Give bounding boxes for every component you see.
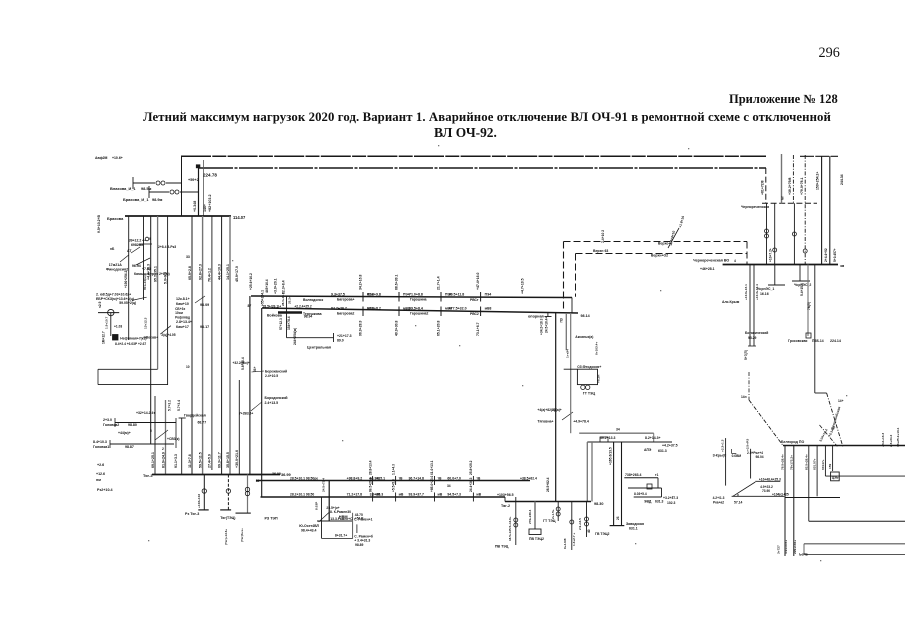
svg-text:73.1+6.7: 73.1+6.7 <box>476 322 480 336</box>
svg-text:631.57+: 631.57+ <box>813 458 817 470</box>
svg-text:Брахова: Брахова <box>107 216 124 221</box>
svg-text:40: 40 <box>587 529 591 533</box>
svg-text:36.7+14.8: 36.7+14.8 <box>409 476 425 480</box>
svg-text:34.2+16.8: 34.2+16.8 <box>359 274 363 290</box>
svg-text:9.5+10.2+В: 9.5+10.2+В <box>97 214 101 233</box>
svg-text:ч2.9: ч2.9 <box>98 301 102 308</box>
svg-text:8.03Р: 8.03Р <box>315 502 319 510</box>
svg-text:26: 26 <box>616 516 620 520</box>
svg-text:2.4+13.5: 2.4+13.5 <box>265 401 279 405</box>
svg-text:мВ8: мВ8 <box>485 307 492 311</box>
svg-text:+6.2Н: +6.2Н <box>597 374 601 383</box>
svg-text:14н: 14н <box>741 395 747 399</box>
svg-text:24.5+72.4: 24.5+72.4 <box>322 478 326 492</box>
svg-text:94.5+7.3: 94.5+7.3 <box>447 493 461 497</box>
svg-text:+2.3+1.3: +2.3+1.3 <box>721 439 725 452</box>
svg-text:Головка2: Головка2 <box>103 423 119 427</box>
svg-text:102.3: 102.3 <box>667 501 676 505</box>
svg-text:57+12.3: 57+12.3 <box>279 318 283 330</box>
svg-text:5: 5 <box>150 429 152 433</box>
svg-text:+5.5+5.8: +5.5+5.8 <box>391 479 395 492</box>
svg-text:Чернореченская: Чернореченская <box>741 205 769 209</box>
svg-text:+0.348: +0.348 <box>193 201 197 212</box>
svg-text:Чернореченская ВО: Чернореченская ВО <box>693 259 729 263</box>
svg-text:Бережанский: Бережанский <box>265 370 287 374</box>
svg-text:9+4.9/8: 9+4.9/8 <box>563 538 567 549</box>
svg-text:229+134+: 229+134+ <box>793 540 797 554</box>
svg-text:ЬеПв: ЬеПв <box>799 553 807 557</box>
svg-text:3+727: 3+727 <box>777 545 781 554</box>
svg-text:10: 10 <box>186 365 190 369</box>
svg-text:ЧсрнЭС_1: ЧсрнЭС_1 <box>757 287 774 291</box>
svg-text:47.3+9.8: 47.3+9.8 <box>367 292 381 296</box>
svg-text:+1.6+10: +1.6+10 <box>678 215 685 228</box>
svg-text:пВосав+: пВосав+ <box>144 335 159 339</box>
svg-text:35.8+15.5: 35.8+15.5 <box>226 452 230 468</box>
svg-text:39+12.2 4+: 39+12.2 4+ <box>129 239 146 243</box>
svg-text:20.5+11.8: 20.5+11.8 <box>449 292 465 296</box>
svg-text:Волгодонск: Волгодонск <box>303 298 323 302</box>
svg-text:+103+56.5: +103+56.5 <box>497 493 514 497</box>
svg-text:+81+72/8: +81+72/8 <box>761 180 765 195</box>
svg-text:84.7+26.7: 84.7+26.7 <box>331 307 347 311</box>
svg-text:+2.6: +2.6 <box>97 463 104 467</box>
svg-text:8.03+5.4: 8.03+5.4 <box>634 492 647 496</box>
svg-text:34: 34 <box>616 428 620 432</box>
svg-text:631.1: 631.1 <box>629 527 638 531</box>
svg-text:+4.2+37.5: +4.2+37.5 <box>662 444 678 448</box>
svg-text:Кам+17: Кам+17 <box>176 325 189 329</box>
svg-text:7+2В3.5+: 7+2В3.5+ <box>239 412 253 416</box>
svg-text:631.3: 631.3 <box>655 500 664 504</box>
svg-text:33: 33 <box>186 255 190 259</box>
svg-text:34: 34 <box>447 484 451 488</box>
svg-text:65.1+20.8: 65.1+20.8 <box>437 320 441 336</box>
svg-text:71.0+8.8: 71.0+8.8 <box>409 292 423 296</box>
svg-text:1+тХ4: 1+тХ4 <box>566 349 570 358</box>
svg-text:279+236.4: 279+236.4 <box>528 509 532 524</box>
svg-text:зм: зм <box>840 264 845 268</box>
svg-text:28.8+13.4: 28.8+13.4 <box>368 460 372 475</box>
svg-text:73.90: 73.90 <box>762 489 770 493</box>
svg-text:8+31.7+: 8+31.7+ <box>335 534 347 538</box>
svg-text:12.0+8.2: 12.0+8.2 <box>367 307 381 311</box>
svg-text:5+7(Л): 5+7(Л) <box>744 350 748 360</box>
svg-text:60.0+7.0: 60.0+7.0 <box>447 476 461 480</box>
svg-text:28.0+25.6: 28.0+25.6 <box>281 292 285 306</box>
svg-text:НВМ: НВМ <box>339 514 348 519</box>
svg-text:мВ: мВ <box>399 493 404 497</box>
svg-text:78+172.2+: 78+172.2+ <box>789 455 793 470</box>
svg-text:2(ц)+4.05: 2(ц)+4.05 <box>161 333 175 337</box>
svg-text:+38.5+82.4: +38.5+82.4 <box>520 476 537 480</box>
svg-text:24.4+30.3: 24.4+30.3 <box>469 477 473 492</box>
svg-text:159+254.2+: 159+254.2+ <box>816 172 820 190</box>
svg-text:Авф2М: Авф2М <box>95 156 108 160</box>
svg-text:ПВ ТЭЦ2: ПВ ТЭЦ2 <box>529 537 544 541</box>
svg-text:нБ: нБ <box>110 247 115 251</box>
svg-text:+СВ3(к): +СВ3(к) <box>167 437 180 441</box>
svg-text:11.3+7.6: 11.3+7.6 <box>188 454 192 468</box>
svg-text:8.4+10.3: 8.4+10.3 <box>93 440 107 444</box>
svg-text:Ботанический: Ботанический <box>745 331 768 335</box>
svg-text:25.2+: 25.2+ <box>287 296 291 304</box>
svg-text:92.8+27.3: 92.8+27.3 <box>198 264 202 280</box>
svg-text:Брахова_И_1: Брахова_И_1 <box>123 197 149 202</box>
svg-text:4.2+/1.3: 4.2+/1.3 <box>713 496 725 500</box>
svg-text:Сб.Феодосия+: Сб.Феодосия+ <box>577 365 601 369</box>
svg-text:+7.03: +7.03 <box>142 267 151 271</box>
svg-text:Ю1+10(м): Ю1+10(м) <box>143 275 147 290</box>
svg-text:27.4+5.9: 27.4+5.9 <box>208 454 212 468</box>
svg-text:Заводская: Заводская <box>626 522 644 526</box>
svg-text:78(Л): 78(Л) <box>807 302 811 310</box>
svg-text:ПВ ТЭЦ: ПВ ТЭЦ <box>495 545 509 549</box>
svg-text:89.0: 89.0 <box>337 339 344 343</box>
svg-text:ЦЗБ: ЦЗБ <box>832 475 839 479</box>
svg-text:93.9+37.7: 93.9+37.7 <box>409 493 425 497</box>
svg-text:28.5+10.1 98.50ре: 28.5+10.1 98.50ре <box>290 477 318 481</box>
svg-text:49.9+30.8: 49.9+30.8 <box>395 320 399 336</box>
svg-text:+10.9+16.1: +10.9+16.1 <box>744 284 748 300</box>
svg-text:28.5+(26.1)+: 28.5+(26.1)+ <box>263 305 282 309</box>
svg-text:18.5+135.5+13.6+: 18.5+135.5+13.6+ <box>508 516 512 541</box>
svg-text:+34.2+10.3: +34.2+10.3 <box>540 318 544 335</box>
svg-text:З-Кры(С: З-Кры(С <box>713 454 727 458</box>
svg-text:+4.7+19.5: +4.7+19.5 <box>520 278 524 294</box>
svg-text:24.5+10.4+: 24.5+10.4+ <box>545 317 549 333</box>
svg-text:Алс.Крым: Алс.Крым <box>722 300 740 304</box>
svg-text:+55+254.1: +55+254.1 <box>261 290 265 306</box>
svg-text:+196+254.2: +196+254.2 <box>124 271 128 288</box>
svg-text:57.14: 57.14 <box>734 501 743 505</box>
svg-text:+46+28.1: +46+28.1 <box>700 267 715 271</box>
svg-text:Аксинья(а): Аксинья(а) <box>575 335 593 339</box>
svg-text:25.8+29.2: 25.8+29.2 <box>469 460 473 475</box>
svg-text:9.3+37.5: 9.3+37.5 <box>331 292 345 296</box>
svg-text:98.9м: 98.9м <box>152 197 163 202</box>
svg-text:Белгород ПО: Белгород ПО <box>781 440 804 444</box>
svg-text:+3.2+37.3: +3.2+37.3 <box>663 496 678 500</box>
svg-text:Гарошина2: Гарошина2 <box>410 312 429 316</box>
svg-text:8.4+2.4 +6.03Р +2.67: 8.4+2.4 +6.03Р +2.67 <box>115 342 146 346</box>
svg-text:3.9+36.3: 3.9+36.3 <box>370 493 384 497</box>
svg-text:2.6+34.2: 2.6+34.2 <box>889 434 893 447</box>
svg-text:154+78.4: 154+78.4 <box>287 316 291 330</box>
svg-text:87: 87 <box>248 304 252 308</box>
svg-text:Багерова+: Багерова+ <box>337 298 354 302</box>
svg-text:(Тяг)+13.6+: (Тяг)+13.6+ <box>224 529 228 545</box>
svg-text:РВС2: РВС2 <box>470 312 479 316</box>
svg-text:+21+17.3: +21+17.3 <box>337 334 352 338</box>
svg-text:мВ: мВ <box>438 493 443 497</box>
svg-text:76.4+1.2: 76.4+1.2 <box>208 268 212 282</box>
svg-text:98.30: 98.30 <box>594 502 603 506</box>
svg-text:16.3+15.1: 16.3+15.1 <box>370 476 386 480</box>
svg-text:+85.6+23.6: +85.6+23.6 <box>430 475 434 492</box>
svg-text:+98.8+9.2: +98.8+9.2 <box>347 476 363 480</box>
svg-text:98.14: 98.14 <box>581 314 591 318</box>
svg-text:14.1+25.1: 14.1+25.1 <box>226 264 230 280</box>
svg-text:Рка+а2: Рка+а2 <box>713 500 724 504</box>
svg-text:+2.5+Р.5: +2.5+Р.5 <box>746 439 750 451</box>
svg-text:4: 4 <box>734 259 736 263</box>
svg-text:+12.6: +12.6 <box>96 472 105 476</box>
svg-text:59.5+11.5: 59.5+11.5 <box>198 452 202 468</box>
svg-text:ПЗ: ПЗ <box>560 318 564 322</box>
svg-text:68.77: 68.77 <box>198 421 207 425</box>
svg-text:опорная: опорная <box>528 315 544 319</box>
svg-text:+104(с)+25: +104(с)+25 <box>772 492 789 496</box>
svg-text:244+254(м): 244+254(м) <box>293 328 297 345</box>
svg-text:98.09: 98.09 <box>200 303 209 307</box>
svg-text:х: х <box>737 493 739 497</box>
svg-text:98.87: 98.87 <box>125 445 134 449</box>
svg-text:+39.2+79/8: +39.2+79/8 <box>788 177 792 195</box>
svg-text:244.34: 244.34 <box>840 174 844 185</box>
svg-text:Рофлявд: Рофлявд <box>175 316 190 320</box>
svg-text:98.4+43.4: 98.4+43.4 <box>301 529 317 533</box>
svg-text:224.78: 224.78 <box>203 173 217 178</box>
svg-text:69.1+25.1: 69.1+25.1 <box>151 452 155 468</box>
svg-text:нм: нм <box>96 478 101 482</box>
svg-text:РЗ ТЭП: РЗ ТЭП <box>265 516 279 520</box>
svg-text:ГТ ТЭЦ: ГТ ТЭЦ <box>583 391 596 395</box>
svg-text:5+0.457+: 5+0.457+ <box>833 248 837 262</box>
svg-text:мВ: мВ <box>476 493 481 497</box>
svg-text:98.29: 98.29 <box>748 336 757 340</box>
svg-text:21.7+1.4: 21.7+1.4 <box>437 276 441 290</box>
svg-text:22.3+8.4: 22.3+8.4 <box>282 280 286 294</box>
svg-text:Грэсовская: Грэсовская <box>788 339 807 343</box>
svg-text:1.1+4.3: 1.1+4.3 <box>391 464 395 475</box>
svg-text:9: 9 <box>149 237 151 241</box>
svg-text:ГВ ТЭЦ2: ГВ ТЭЦ2 <box>595 532 609 536</box>
svg-text:13+25.2+10.4: 13+25.2+10.4 <box>896 427 900 447</box>
svg-text:тВ: тВ <box>476 476 481 480</box>
svg-text:28.2+10.1 98.50: 28.2+10.1 98.50 <box>290 493 314 497</box>
svg-text:+1.03: +1.03 <box>114 325 122 329</box>
svg-text:2.9+13.5: 2.9+13.5 <box>578 518 582 530</box>
svg-text:16.16: 16.16 <box>760 292 769 296</box>
svg-text:АПЭ: АПЭ <box>644 448 652 452</box>
svg-text:98.80: 98.80 <box>128 423 137 427</box>
svg-text:6+103.4+: 6+103.4+ <box>595 342 599 355</box>
svg-text:69.3+11.7: 69.3+11.7 <box>217 452 221 468</box>
svg-text:1.9+10.7: 1.9+10.7 <box>105 316 109 329</box>
svg-text:1.3+2.7 +: 1.3+2.7 + <box>572 533 576 546</box>
svg-text:44.4+10.3: 44.4+10.3 <box>217 264 221 280</box>
svg-text:Тяговна+: Тяговна+ <box>537 419 553 423</box>
svg-text:78.5+28.4+: 78.5+28.4+ <box>781 454 785 470</box>
svg-text:+4.9+78.4: +4.9+78.4 <box>573 419 589 423</box>
svg-text:98.04: 98.04 <box>756 455 764 459</box>
svg-text:Ю-Осет4ВЛ: Ю-Осет4ВЛ <box>299 524 319 528</box>
svg-text:+3.9+20.1: +3.9+20.1 <box>274 278 278 294</box>
svg-text:73(а)+: 73(а)+ <box>552 408 562 412</box>
svg-text:+57.В: +57.В <box>355 517 364 521</box>
svg-text:+47.4+16.0: +47.4+16.0 <box>476 272 480 290</box>
svg-text:Камыш-Бурун 2+8(м): Камыш-Бурун 2+8(м) <box>134 272 170 276</box>
svg-text:+25.6+10.2: +25.6+10.2 <box>249 273 253 290</box>
svg-text:5.8+10.4: 5.8+10.4 <box>241 357 245 370</box>
svg-text:+44(м)+: +44(м)+ <box>118 431 131 435</box>
svg-text:+165.6/13.5: +165.6/13.5 <box>609 447 613 465</box>
svg-text:Верхн+О2: Верхн+О2 <box>651 253 668 257</box>
svg-text:91.1+3.3: 91.1+3.3 <box>174 454 178 468</box>
svg-text:63147+: 63147+ <box>821 459 825 470</box>
svg-text:тВ: тВ <box>399 476 404 480</box>
svg-text:2+4.4+92: 2+4.4+92 <box>824 248 828 262</box>
svg-text:тВ: тВ <box>438 476 443 480</box>
svg-text:Тяг(ТЭЦ): Тяг(ТЭЦ) <box>220 516 235 520</box>
svg-text:2+3.0: 2+3.0 <box>103 418 112 422</box>
svg-text:59.05+2(ц): 59.05+2(ц) <box>119 301 136 305</box>
svg-text:8.2+14.3+: 8.2+14.3+ <box>645 436 661 440</box>
svg-text:2+8.4 8-Рк3: 2+8.4 8-Рк3 <box>158 245 176 249</box>
svg-text:+77.5+32.0: +77.5+32.0 <box>449 307 467 311</box>
svg-text:+30.0+21.6: +30.0+21.6 <box>235 450 239 468</box>
svg-text:14+: 14+ <box>838 399 844 403</box>
svg-text:10см: 10см <box>175 311 183 315</box>
svg-text:13+12.3: 13+12.3 <box>144 317 148 329</box>
svg-text:65.9+2.8: 65.9+2.8 <box>188 266 192 280</box>
svg-text:Рз2+10.4: Рз2+10.4 <box>97 488 114 492</box>
svg-text:45.9+17.0: 45.9+17.0 <box>235 266 239 282</box>
svg-text:+103+102: +103+102 <box>197 494 201 508</box>
svg-text:445+10.4: 445+10.4 <box>265 279 269 293</box>
svg-text:+32+14.2 4т: +32+14.2 4т <box>136 411 155 415</box>
svg-text:12к.8.1+: 12к.8.1+ <box>176 297 190 301</box>
svg-text:96.9+28.9: 96.9+28.9 <box>359 320 363 336</box>
svg-text:+79.0+78.1: +79.0+78.1 <box>800 177 804 195</box>
svg-text:Головка1: Головка1 <box>93 445 109 449</box>
svg-text:61.6+13.1: 61.6+13.1 <box>430 460 434 475</box>
svg-text:Центральная: Центральная <box>307 346 331 350</box>
svg-text:2.8+13.4+: 2.8+13.4+ <box>176 320 192 324</box>
svg-text:(Тяг)б+э+: (Тяг)б+э+ <box>240 528 244 542</box>
svg-text:0.6ВМ: 0.6ВМ <box>732 454 742 458</box>
svg-text:5.4+15.4: 5.4+15.4 <box>800 283 804 296</box>
svg-text:99.5+8.4: 99.5+8.4 <box>409 307 423 311</box>
svg-text:98.94: 98.94 <box>304 315 313 319</box>
svg-text:Войкова: Войкова <box>267 314 282 318</box>
svg-text:Влахова_И_1: Влахова_И_1 <box>110 186 136 191</box>
svg-text:28.5+82.4: 28.5+82.4 <box>546 477 550 492</box>
svg-text:2+1.5+: 2+1.5+ <box>551 509 555 519</box>
svg-text:71.2+17.8: 71.2+17.8 <box>347 493 363 497</box>
svg-text:98.5м: 98.5м <box>141 186 152 191</box>
svg-text:2.4+10.5: 2.4+10.5 <box>265 374 278 378</box>
svg-text:Багерова2: Багерова2 <box>337 312 354 316</box>
svg-text:Гарошина: Гарошина <box>410 298 427 302</box>
svg-text:7.4+10 2: 7.4+10 2 <box>601 230 605 243</box>
svg-text:5.7+3.2: 5.7+3.2 <box>168 400 172 411</box>
svg-text:Рз Тяг-3: Рз Тяг-3 <box>185 512 199 516</box>
svg-text:224.14: 224.14 <box>830 339 841 343</box>
svg-text:631.3: 631.3 <box>658 449 667 453</box>
svg-text:+59+2: +59+2 <box>188 178 199 182</box>
svg-text:17м21А: 17м21А <box>109 263 123 267</box>
svg-text:Кам+10: Кам+10 <box>176 302 189 306</box>
svg-text:+10+48.4+25.3: +10+48.4+25.3 <box>759 478 781 482</box>
svg-text:+10+7.2+: +10+7.2+ <box>769 248 773 262</box>
svg-text:82.5+28.4+: 82.5+28.4+ <box>804 454 808 470</box>
svg-text:ЭВД: ЭВД <box>644 500 652 504</box>
svg-text:98.17: 98.17 <box>200 325 209 329</box>
svg-text:36+: 36+ <box>253 366 257 372</box>
svg-text:мг: мг <box>781 195 785 200</box>
svg-text:т1: т1 <box>655 473 659 477</box>
svg-text:ПЗБ.14: ПЗБ.14 <box>812 339 824 343</box>
svg-text:2: 2 <box>162 447 164 451</box>
svg-text:Верхн 63: Верхн 63 <box>593 249 608 253</box>
svg-text:Гвардейская: Гвардейская <box>184 414 206 418</box>
svg-text:738+263.4: 738+263.4 <box>625 473 641 477</box>
svg-text:+3.2+16.3: +3.2+16.3 <box>881 433 885 447</box>
svg-text:5.7+3.4: 5.7+3.4 <box>177 400 181 411</box>
svg-text:1М+12.7: 1М+12.7 <box>102 331 106 344</box>
svg-text:159: 159 <box>828 464 832 469</box>
svg-text:146+: 146+ <box>203 204 207 212</box>
svg-text:+82+103.2: +82+103.2 <box>208 195 212 213</box>
svg-text:ПЭ4: ПЭ4 <box>485 292 492 296</box>
svg-text:Тяг-3: Тяг-3 <box>143 473 153 478</box>
svg-text:Бородинский: Бородинский <box>265 396 288 400</box>
svg-text:81.9+24.9: 81.9+24.9 <box>161 452 165 468</box>
svg-text:Тяг-2: Тяг-2 <box>501 504 510 508</box>
svg-text:+10.6+: +10.6+ <box>112 156 123 160</box>
svg-text:+2.2.4+25.2: +2.2.4+25.2 <box>294 305 311 309</box>
svg-text:98.89: 98.89 <box>355 543 364 547</box>
svg-text:4.9+13.6+: 4.9+13.6+ <box>784 540 788 554</box>
svg-text:114.07: 114.07 <box>233 215 246 220</box>
svg-text:РВСт: РВСт <box>470 298 479 302</box>
svg-text:88.6+39.1: 88.6+39.1 <box>395 274 399 290</box>
svg-text:36.99: 36.99 <box>272 472 281 476</box>
svg-text:6982мв: 6982мв <box>131 243 143 247</box>
